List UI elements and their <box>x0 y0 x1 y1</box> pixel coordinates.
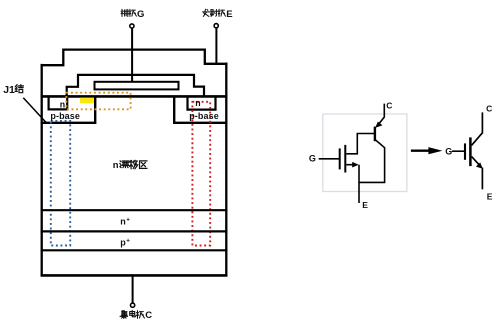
svg-text:C: C <box>145 310 152 321</box>
svg-text:n: n <box>195 98 200 108</box>
wire collector diagonal + lead <box>472 112 483 145</box>
svg-text:+: + <box>126 238 130 245</box>
wire emitter lead right <box>481 168 483 190</box>
n+ source region left <box>49 96 68 109</box>
svg-text:C: C <box>486 104 492 114</box>
svg-text:C: C <box>386 100 392 110</box>
MOSFET source arrowhead <box>352 162 359 168</box>
p-base well right <box>174 96 227 122</box>
wire emitter lead <box>215 28 217 65</box>
svg-text:+: + <box>126 216 130 223</box>
silicon top surface <box>41 95 228 98</box>
wire collector lead <box>132 276 134 303</box>
wire gate lead right <box>452 150 464 152</box>
p-base well left <box>41 96 96 122</box>
J1 pointer line <box>23 98 47 123</box>
wire MOSFET source <box>346 164 353 166</box>
svg-text:n: n <box>60 99 65 109</box>
wire PNP collector down to E rail <box>359 140 385 183</box>
channel highlight (yellow) <box>80 98 94 104</box>
svg-text:E: E <box>362 200 368 210</box>
wire drain to PNP base <box>346 134 374 154</box>
svg-text:p-base: p-base <box>50 111 80 121</box>
IGBT body bar <box>469 137 472 166</box>
layer boundary p+ / collector metal <box>41 249 228 251</box>
device bottom edge <box>41 274 228 277</box>
svg-text:E: E <box>226 9 232 20</box>
svg-text:p-base: p-base <box>189 111 219 121</box>
wire E lead <box>358 165 360 203</box>
polysilicon gate bar <box>95 82 179 90</box>
blue dotted box (current path left) <box>51 121 70 246</box>
svg-text:n: n <box>113 160 119 171</box>
orange dotted box (MOS channel region) <box>66 93 130 110</box>
wire C lead + PNP emitter diagonal <box>378 104 384 125</box>
gate terminal G circle <box>130 24 134 28</box>
PNP emitter arrowhead <box>375 122 382 128</box>
svg-text:G: G <box>309 154 316 164</box>
n+ source region right <box>188 96 216 109</box>
gate oxide mesa outline <box>67 75 204 97</box>
device left edge <box>41 64 43 277</box>
svg-text:E: E <box>487 192 493 202</box>
emitter metal contact outline <box>41 50 228 66</box>
label Collector C (集电极C) <box>120 310 144 318</box>
layer boundary n-drift / n+ <box>41 209 228 211</box>
wire gate lead <box>319 158 339 160</box>
layer boundary n+ / p+ <box>41 230 228 232</box>
emitter terminal E circle <box>214 24 218 28</box>
svg-text:J1: J1 <box>3 84 15 96</box>
drift region chars <box>120 160 147 169</box>
equivalent circuit bounding box <box>323 114 407 192</box>
MOSFET channel bar <box>344 145 346 173</box>
collector terminal C circle <box>131 303 135 307</box>
arrow equivalence <box>411 150 430 152</box>
MOSFET Q-mos gate bar <box>339 148 341 169</box>
J1 jie char <box>15 85 23 93</box>
label Emitter E (发射极E) <box>203 9 226 16</box>
svg-text:G: G <box>445 147 452 157</box>
IGBT gate bar <box>464 143 466 159</box>
emitter arrowhead right <box>476 162 483 168</box>
transistor Q1 PNP base bar <box>374 127 376 142</box>
svg-text:G: G <box>137 9 144 20</box>
red dotted box (current path right) <box>192 102 210 246</box>
device right edge <box>225 63 227 277</box>
svg-text:n: n <box>120 216 126 226</box>
wire gate lead <box>131 28 133 82</box>
wire emitter diagonal <box>472 157 479 165</box>
label Gate G (栅极G) <box>121 9 136 16</box>
